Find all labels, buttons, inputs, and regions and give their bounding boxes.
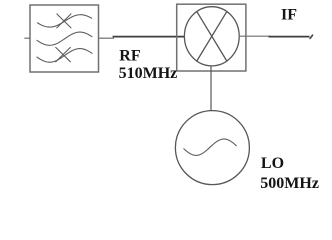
filter middle wave xyxy=(37,32,92,45)
wire: RF line from filter to mixer xyxy=(113,36,185,38)
wire: vertical LO stub from mixer to oscillator xyxy=(210,66,212,111)
wire: input stub into filter xyxy=(24,37,30,39)
filter bottom wave reject X xyxy=(56,47,71,61)
svg-text:LO: LO xyxy=(261,155,284,172)
mixer U1 box xyxy=(177,4,246,71)
mixer circle xyxy=(184,7,239,66)
wire: filter output stub xyxy=(99,37,115,39)
svg-text:510MHz: 510MHz xyxy=(119,65,178,82)
svg-text:RF: RF xyxy=(119,48,141,65)
svg-text:IF: IF xyxy=(281,6,297,23)
wire: mixer IF output stub xyxy=(239,35,270,37)
bandpass filter FL1 box xyxy=(30,5,99,72)
filter bottom wave xyxy=(37,49,92,63)
filter top wave reject X xyxy=(57,14,71,28)
svg-text:500MHz: 500MHz xyxy=(260,175,319,192)
LO sine wave xyxy=(184,139,237,155)
filter top wave xyxy=(37,15,91,27)
wire: IF line xyxy=(269,36,310,38)
IF line end tick xyxy=(310,35,312,38)
LO oscillator circle xyxy=(175,111,249,185)
mixer X xyxy=(197,12,227,61)
